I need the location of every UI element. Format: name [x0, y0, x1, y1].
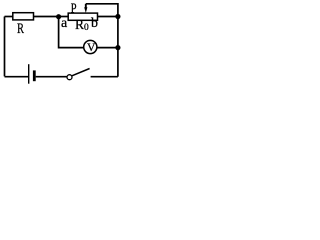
node at top-right (wiper meets rail) — [115, 14, 120, 19]
wire from rheostat b terminal to right rail — [98, 16, 118, 18]
label R0 — [75, 17, 89, 33]
wire from node A to rheostat R0 — [59, 16, 69, 18]
wire wiper to right rail — [86, 4, 118, 17]
wire bottom-left from left rail to battery — [5, 76, 29, 78]
battery cell — [29, 64, 35, 84]
svg-text:V: V — [87, 42, 96, 54]
wire voltmeter branch: down from node A and right — [59, 17, 84, 48]
rheostat R0 body — [68, 13, 97, 20]
svg-text:b: b — [91, 16, 98, 31]
node at right rail / voltmeter junction — [115, 45, 120, 50]
label b — [91, 16, 98, 31]
label P — [71, 2, 77, 17]
label a — [61, 16, 68, 31]
svg-text:P: P — [71, 2, 77, 17]
resistor R — [13, 13, 34, 20]
wiper arrow P of rheostat — [84, 4, 87, 13]
wire right rail down — [117, 17, 119, 77]
svg-text:R: R — [17, 21, 24, 37]
switch S — [67, 69, 90, 80]
svg-text:a: a — [61, 16, 68, 31]
wire from battery to switch — [36, 76, 67, 78]
wire from voltmeter to right rail — [97, 47, 118, 49]
wire from switch to bottom-right corner — [91, 76, 118, 78]
voltmeter V — [84, 40, 97, 53]
wire left rail down — [4, 17, 6, 77]
node A junction dot — [56, 14, 61, 19]
label R — [17, 21, 24, 37]
wire top-left from left corner to resistor R — [5, 16, 13, 18]
wire from resistor R to node A — [34, 16, 59, 18]
